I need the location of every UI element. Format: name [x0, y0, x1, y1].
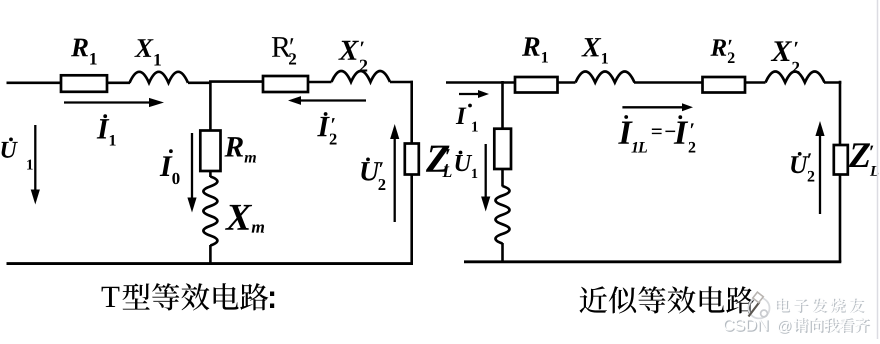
label X2p (right): [771, 41, 792, 61]
wire: X1 to node a: [188, 82, 210, 85]
wire: right circuit bottom rail: [464, 260, 841, 263]
resistor R1 (left circuit): [61, 75, 107, 92]
title colon: [270, 292, 274, 297]
wire: left circuit top rail input segment: [7, 82, 63, 85]
label ZLp (right): [849, 143, 870, 167]
arrow I1 (left circuit): [64, 101, 151, 103]
resistor Rm (right circuit magnetizing branch): [494, 129, 511, 169]
wire: right circuit top input stub: [446, 81, 515, 84]
label Rm: [224, 137, 243, 156]
arrow I1L (right circuit): [622, 106, 684, 108]
arrow I2p (left circuit, pointing left): [299, 99, 366, 101]
label R2p (right): [710, 39, 726, 55]
label I2p (left): [317, 117, 330, 136]
label I1 (right): [456, 108, 467, 124]
wire: right circuit right vertical upper: [839, 81, 842, 146]
label Xm: [225, 205, 252, 230]
label U1 (right): [455, 155, 472, 171]
label R1 (right): [522, 37, 540, 55]
label X1 (right): [581, 38, 601, 56]
resistor R1 (right circuit): [515, 77, 558, 93]
label X2p (left): [338, 41, 359, 60]
label I0: [160, 156, 173, 176]
label U2p (right): [791, 156, 808, 173]
arrow U2p (right circuit up): [819, 134, 821, 214]
wire: R1 to X1: [107, 82, 130, 85]
watermark text CSDN: [725, 320, 735, 332]
label ZLp (left): [426, 146, 450, 172]
label I1L = -I2p: [618, 122, 633, 144]
label I1 (left): [97, 119, 110, 138]
wire: box to coil (right branch): [501, 169, 504, 187]
arrow U1 (right circuit down): [485, 144, 487, 199]
wire: left circuit bottom rail: [7, 262, 414, 265]
load impedance ZLp (left circuit): [405, 144, 419, 175]
resistor R2p (right circuit): [703, 77, 746, 93]
title: T-type equivalent circuit: [102, 287, 120, 307]
watermark text elecfans: [777, 299, 790, 313]
wire: X2p to right top corner: [390, 81, 413, 84]
wire: R2p to X2p (right): [745, 81, 766, 84]
wire: magnetizing branch vertical top: [501, 81, 504, 129]
arrow I0: [191, 133, 193, 200]
wire: ZL box to bottom right corner: [410, 175, 413, 264]
inductor X1 (right circuit): [576, 72, 635, 83]
resistor Rm (shunt branch): [200, 131, 220, 172]
arrow I1 (right circuit input): [459, 93, 480, 95]
wire: X1 to R2p (right): [634, 81, 703, 84]
wire: ZLp to bottom corner (right circuit): [839, 175, 842, 263]
wire: Xm to bottom rail: [209, 245, 212, 264]
wire: X2p to top right corner: [824, 81, 841, 84]
wire: R2p to X2p: [308, 81, 332, 84]
watermark username: [794, 318, 809, 333]
wire: right vertical upper (to ZL box): [410, 81, 413, 144]
wire: Rm to Xm: [209, 171, 212, 177]
inductor Xm (shunt branch): [203, 177, 217, 246]
title: approximate equivalent circuit: [579, 286, 607, 313]
inductor X1 (left circuit): [130, 72, 189, 83]
faint right edge line: [877, 0, 879, 339]
label U2p (left): [361, 162, 380, 181]
arrow U2p (left circuit, up): [394, 137, 396, 222]
inductor X2p (right circuit): [766, 72, 825, 83]
label R1 (left): [71, 39, 88, 57]
arrow U1 (left circuit): [34, 125, 36, 192]
watermark logo circle: [749, 298, 770, 319]
resistor R2p (left circuit): [263, 76, 308, 92]
inductor X2p (left circuit): [332, 71, 391, 82]
wire: node a vertical to Rm: [209, 81, 212, 131]
label R2p (left, upright): [272, 37, 291, 57]
label X1 (left): [134, 39, 153, 57]
label U1 (left): [1, 142, 17, 158]
wire: coil to bottom (right branch): [501, 243, 504, 262]
wire: R1 to X1 (right): [558, 81, 576, 84]
inductor Xm (right circuit magnetizing branch): [496, 186, 510, 243]
load impedance ZLp (right circuit): [834, 145, 848, 175]
wire: node a to R2p: [209, 80, 263, 83]
